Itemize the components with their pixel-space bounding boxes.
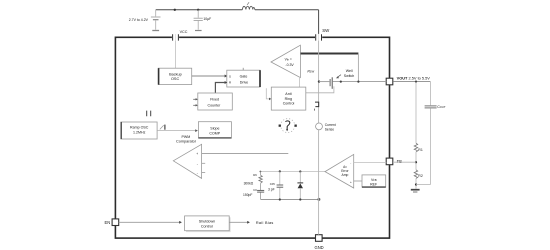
svg-text:Shutdown: Shutdown — [199, 220, 215, 224]
svg-text:R2: R2 — [418, 174, 423, 178]
svg-text:Well: Well — [346, 69, 353, 73]
wire SW internal vertical — [318, 41, 320, 123]
wire well switch arrow — [336, 75, 341, 79]
pin GND — [316, 235, 323, 242]
svg-text:R: R — [229, 81, 231, 85]
svg-text:CPC: CPC — [270, 182, 276, 186]
svg-text:Backup: Backup — [169, 72, 182, 76]
wire SW to rectifier fet — [319, 81, 329, 83]
wire stub into counter input a — [193, 98, 198, 100]
wire counter to latch R input — [215, 81, 227, 93]
svg-text:EN: EN — [105, 220, 111, 225]
svg-text:CC: CC — [253, 188, 257, 192]
node R2-Cout junction — [415, 183, 417, 185]
block fixed counter — [198, 93, 233, 110]
wire FB to error amp — [354, 161, 387, 163]
svg-text:S: S — [229, 75, 231, 79]
svg-text:REF: REF — [370, 182, 377, 186]
diode clamp D1 — [297, 172, 303, 200]
wire VOUT external — [393, 81, 431, 83]
svg-text:3 pF: 3 pF — [268, 187, 275, 191]
wire rectifier comparator to anti ring stub — [299, 78, 301, 87]
node comp leg2 top — [279, 170, 281, 172]
block gate drive latch U2 — [227, 68, 260, 87]
wire rectifier fet to VOUT — [333, 81, 386, 83]
svg-text:VOUT 2.5V to 5.5V: VOUT 2.5V to 5.5V — [397, 75, 431, 80]
svg-text:10µF: 10µF — [203, 17, 211, 21]
wire ground net vertical — [318, 130, 320, 235]
wire fet gate jog to anti ring — [306, 86, 334, 92]
pin FB — [386, 158, 393, 165]
svg-text:RC: RC — [253, 173, 257, 177]
pin VCC — [172, 34, 179, 41]
wire ramp osc to slope comp — [157, 129, 198, 132]
wire stub into counter input b — [193, 104, 198, 106]
label current sense — [325, 123, 336, 132]
wire R2 to ground — [415, 178, 417, 188]
svg-text:Amp: Amp — [342, 173, 349, 177]
wire rectifier rail drop — [357, 54, 359, 82]
pin VOUT — [386, 78, 393, 85]
node comp leg1 top — [260, 171, 262, 173]
wire error amp output node line — [260, 171, 325, 173]
svg-text:+: + — [350, 180, 352, 184]
pin EN — [112, 219, 119, 226]
transistor rectifier FET Q1 — [330, 77, 332, 89]
transistor switch glyph M1 — [315, 102, 319, 111]
op-amp PWM comparator U3 — [173, 144, 201, 178]
node FB tap — [415, 161, 417, 163]
wire Cout bottom return — [416, 184, 431, 186]
svg-text:COUT: COUT — [437, 105, 446, 109]
resistor RC compensation — [259, 172, 262, 191]
node SW rectifier junction — [318, 80, 320, 82]
crystal marks above ramp osc — [147, 111, 151, 117]
svg-text:-0.3V: -0.3V — [285, 63, 294, 67]
ramp waveform icon — [160, 125, 165, 130]
wire VCC internal drop — [175, 41, 177, 69]
wire FB to divider — [393, 161, 416, 163]
svg-text:OSC: OSC — [171, 77, 179, 81]
node ground net junction — [317, 198, 320, 201]
node leg2 bottom — [279, 198, 281, 200]
svg-text:Control: Control — [283, 102, 295, 106]
current sense element — [316, 123, 323, 130]
svg-text:Control: Control — [201, 225, 213, 229]
wire comparator input stub 1 — [202, 162, 205, 164]
wire into anti ring control — [266, 88, 271, 100]
svg-text:Ramp OSC: Ramp OSC — [130, 125, 149, 129]
block slope comp — [198, 122, 231, 138]
capacitor Cin — [194, 10, 203, 30]
svg-text:150pF: 150pF — [243, 193, 252, 197]
IC boundary box — [115, 37, 389, 238]
svg-text:PWM: PWM — [182, 135, 191, 139]
svg-text:Switch: Switch — [344, 74, 355, 78]
wire osc to gate-drive latch — [192, 75, 228, 78]
svg-text:VCC: VCC — [180, 30, 188, 34]
resistor R1 — [414, 143, 418, 152]
node rail-VCC junction — [174, 9, 176, 11]
capacitor CPC compensation — [277, 172, 284, 200]
node diode leg top — [299, 170, 301, 172]
op-amp error amplifier U4 — [325, 154, 354, 188]
svg-text:SW: SW — [322, 28, 330, 33]
node diode leg bottom — [299, 198, 301, 200]
block anti ring control — [271, 87, 306, 110]
label PWM comparator — [176, 135, 197, 143]
svg-text:-: - — [350, 162, 351, 166]
svg-text:Counter: Counter — [208, 104, 222, 108]
wire comparator input stub 2 — [202, 172, 205, 174]
svg-text:-: - — [197, 171, 198, 175]
node VOUT divider tap — [415, 81, 417, 83]
pin SW — [315, 34, 322, 41]
svg-text:COMP: COMP — [209, 131, 220, 135]
svg-text:-: - — [197, 162, 198, 166]
node rail-vout junction — [357, 81, 359, 83]
wire R1 to R2 — [415, 152, 417, 170]
svg-text:+: + — [196, 152, 198, 156]
wire divider leg — [415, 82, 417, 144]
capacitor Cout — [425, 82, 437, 185]
op-amp rectifier comparator U5 — [271, 45, 300, 77]
svg-text:Current: Current — [325, 123, 336, 127]
node rail-Cin junction — [197, 9, 199, 11]
svg-text:Ring: Ring — [285, 97, 292, 101]
svg-text:1.2MHz: 1.2MHz — [133, 131, 146, 135]
block shutdown control — [185, 216, 231, 232]
svg-text:Drive: Drive — [240, 80, 248, 84]
wire comparator plus line — [202, 152, 288, 154]
svg-text:Anti: Anti — [285, 92, 291, 96]
wire EN to shutdown control — [119, 221, 182, 224]
svg-text:Fixed: Fixed — [210, 98, 219, 102]
svg-text:Slope: Slope — [210, 126, 219, 130]
svg-text:300kΩ: 300kΩ — [244, 181, 254, 185]
power mosfet circle symbol M2 — [279, 119, 297, 133]
ground under battery — [152, 30, 159, 32]
ground under Cin — [195, 30, 202, 32]
svg-text:VFB: VFB — [371, 178, 377, 182]
svg-text:Comparator: Comparator — [176, 140, 197, 144]
node fet-well junction — [340, 81, 342, 83]
inductor L1 — [242, 2, 255, 10]
svg-text:Sense: Sense — [325, 128, 335, 132]
wire thick rectifier rail — [301, 53, 359, 55]
block ramp oscillator — [121, 122, 157, 139]
wire compensation ground line — [261, 199, 319, 201]
resistor R2 — [414, 170, 418, 179]
svg-text:Gate: Gate — [240, 75, 248, 79]
svg-text:FB: FB — [397, 159, 403, 164]
svg-text:Vth =: Vth = — [285, 58, 292, 62]
block VFB reference — [362, 175, 386, 187]
svg-text:GND: GND — [315, 245, 324, 250]
battery VIN — [151, 10, 161, 30]
capacitor CC compensation — [257, 190, 264, 199]
label well switch — [344, 69, 355, 78]
svg-text:R1: R1 — [418, 148, 423, 152]
svg-text:2.7V to 4.2V: 2.7V to 4.2V — [129, 18, 149, 22]
wire top supply rail — [156, 9, 319, 11]
wire SW drop from rail — [318, 10, 320, 34]
block backup oscillator — [158, 68, 191, 84]
wire shutdown control output — [229, 221, 250, 224]
wire vref to error amp — [354, 180, 362, 182]
svg-text:RSW: RSW — [307, 69, 314, 73]
ground output — [411, 190, 420, 192]
svg-text:Rail Bias: Rail Bias — [256, 221, 274, 225]
